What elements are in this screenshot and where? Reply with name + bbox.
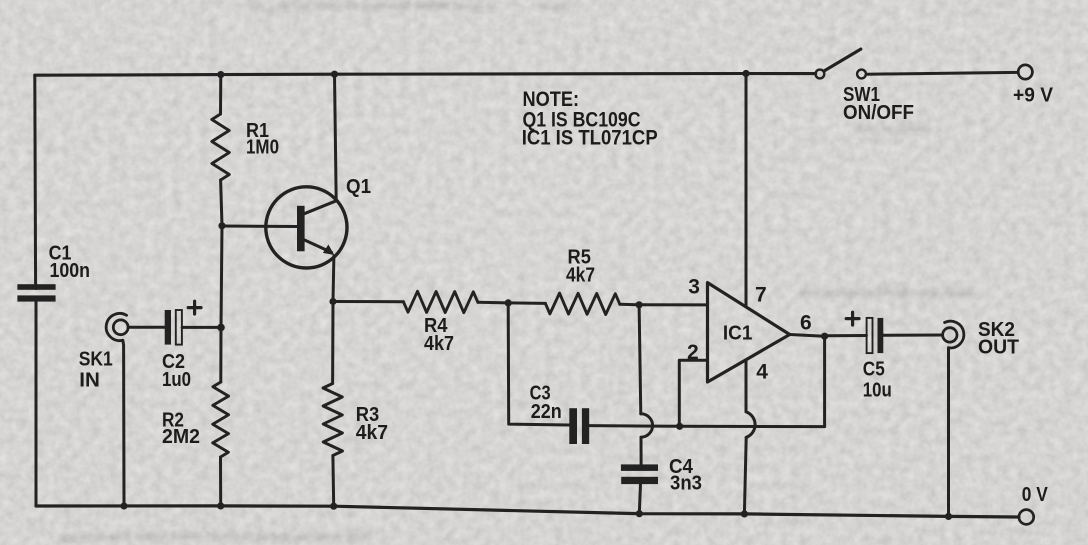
- capacitor C2 (electrolytic): [165, 301, 201, 344]
- node pin4 on 0V rail: [741, 510, 748, 517]
- node SK2 on 0V rail: [945, 513, 952, 520]
- svg-text:4: 4: [756, 360, 768, 383]
- op-amp IC1: [708, 283, 790, 382]
- svg-text:+9 V: +9 V: [1013, 85, 1054, 107]
- svg-text:1u0: 1u0: [162, 369, 191, 391]
- resistor R1: [212, 114, 230, 180]
- wire IC1 pin 4 down to hop: [745, 361, 748, 412]
- svg-text:nm wl onrm lmmto arb numl: nm wl onrm lmmto arb numl: [800, 285, 974, 300]
- terminal +9V: [1013, 65, 1054, 107]
- svg-text:2M2: 2M2: [162, 426, 200, 448]
- wire IC1 pin 2 to node D: [679, 360, 707, 426]
- label C5 value 10u: [863, 359, 892, 402]
- svg-text:3: 3: [688, 276, 700, 299]
- wire pin4 hop to 0V rail: [744, 437, 746, 514]
- wire C3 to pin2 node D: [589, 424, 679, 428]
- wire node C down to hop: [639, 305, 641, 414]
- node emitter / R3 / R4: [329, 298, 336, 305]
- svg-text:4k7: 4k7: [424, 333, 454, 355]
- wire emitter node to R3: [331, 302, 334, 384]
- switch SW1: [816, 49, 866, 78]
- svg-text:im pm ilhr nmll unteoi witf am: im pm ilhr nmll unteoi witf ammt bnwl le: [250, 0, 497, 13]
- node C R5 / pin3 / C4 branch: [636, 301, 643, 308]
- pin 4 label: [756, 360, 768, 383]
- wire Q1 emitter to emitter node: [332, 256, 336, 302]
- wire IC1 pin 7 to top rail: [745, 74, 748, 306]
- svg-text:IC1: IC1: [723, 322, 753, 344]
- wire pin4 hop over feedback line: [746, 412, 755, 438]
- svg-text:10u: 10u: [863, 379, 892, 401]
- svg-text:mm: mm: [540, 0, 567, 16]
- node R2 on 0V rail: [217, 502, 224, 509]
- wire from SW1 to +9V terminal: [866, 72, 1018, 74]
- resistor R3: [323, 384, 343, 456]
- wire node C to IC1 pin 3: [639, 303, 707, 306]
- pin 2 label: [687, 341, 699, 364]
- wire R5 to node C: [620, 303, 639, 307]
- label SK2 OUT: [978, 319, 1019, 359]
- svg-text:4k7: 4k7: [566, 264, 595, 286]
- wire left branch (top rail to C1): [33, 75, 37, 288]
- resistor R2: [213, 382, 229, 457]
- wire Q1 collector to top rail: [335, 74, 337, 201]
- label C4 value 3n3: [669, 456, 702, 495]
- svg-text:Q1: Q1: [346, 176, 371, 198]
- wire C2 node to R2: [219, 327, 222, 382]
- wire hop over feedback line: [641, 414, 653, 437]
- wire base node to Q1 base: [222, 225, 297, 229]
- transistor Q1: [266, 187, 347, 268]
- svg-text:lm onw tmll older bmm rintl wn: lm onw tmll older bmm rintl wn older imt…: [60, 529, 370, 544]
- wire R1 to base node: [221, 180, 222, 226]
- wire node D to output corner: [680, 425, 825, 428]
- wire top rail to R1: [219, 75, 222, 114]
- node Q1 base / R1 / R2: [218, 222, 225, 229]
- pin 6 label: [800, 312, 812, 335]
- svg-text:SK1: SK1: [79, 349, 113, 371]
- wire C5 to SK2: [883, 334, 942, 337]
- svg-text:4k7: 4k7: [356, 422, 388, 444]
- label C2 value 1u0: [162, 351, 191, 391]
- node D feedback / pin2: [676, 423, 683, 430]
- socket SK2 (output jack): [943, 321, 964, 348]
- svg-text:6: 6: [800, 312, 812, 335]
- resistor R4: [403, 291, 478, 312]
- pin 7 label: [755, 283, 767, 306]
- svg-text:wmt lo arema: wmt lo arema: [854, 122, 932, 136]
- capacitor C5 (electrolytic): [846, 312, 883, 353]
- wire +9V top supply rail: [35, 74, 816, 76]
- wire node B down to C3 branch: [508, 303, 569, 425]
- label R4 value 4k7: [424, 315, 454, 355]
- svg-text:3n3: 3n3: [670, 473, 702, 495]
- capacitor C4: [621, 464, 658, 484]
- wire emitter node to R4: [333, 300, 403, 303]
- node C4 on 0V rail: [636, 510, 643, 517]
- svg-text:IC1 IS TL071CP: IC1 IS TL071CP: [522, 127, 658, 150]
- wire output node down to feedback line: [823, 336, 826, 426]
- node SK1 on 0V rail: [120, 502, 127, 509]
- wire 0V bottom rail: [36, 506, 1019, 517]
- label C1 value 100n: [49, 242, 90, 281]
- label R2 value 2M2: [162, 410, 200, 448]
- svg-text:1M0: 1M0: [246, 136, 279, 158]
- label SW1 ON/OFF: [843, 84, 914, 124]
- label Q1: [346, 176, 371, 198]
- wire SK1 tip to C2: [128, 326, 164, 329]
- wire SK2 sleeve to 0V rail: [947, 348, 950, 517]
- label R3 value 4k7: [356, 404, 388, 444]
- wire base node down to C2 node: [221, 226, 222, 328]
- svg-text:22n: 22n: [531, 401, 562, 423]
- svg-text:OUT: OUT: [978, 337, 1019, 359]
- node R1 top rail junction: [217, 71, 224, 78]
- socket SK1 (input jack): [106, 313, 128, 340]
- wire node B to R5: [508, 301, 545, 305]
- wire SK1 sleeve to 0V rail: [123, 340, 124, 506]
- capacitor C1: [17, 284, 55, 301]
- svg-text:IN: IN: [79, 369, 100, 391]
- resistor R5: [545, 293, 619, 314]
- svg-text:100n: 100n: [50, 260, 91, 282]
- svg-text:NOTE:: NOTE:: [523, 88, 580, 111]
- wire R3 to 0V rail: [331, 456, 335, 507]
- label SK1 IN: [79, 349, 113, 392]
- svg-text:0 V: 0 V: [1022, 484, 1049, 506]
- svg-text:7: 7: [755, 283, 767, 306]
- label R5 value 4k7: [566, 247, 595, 287]
- terminal 0V: [1019, 484, 1048, 524]
- wire C4 to 0V rail: [639, 484, 640, 514]
- note text: [522, 88, 658, 150]
- label R1 value 1M0: [246, 120, 279, 159]
- capacitor C3: [569, 408, 589, 444]
- node C2 / R2: [217, 324, 225, 332]
- svg-text:C5: C5: [863, 359, 885, 381]
- node R3 on 0V rail: [330, 503, 337, 510]
- svg-text:ON/OFF: ON/OFF: [843, 102, 914, 124]
- wire R2 to 0V rail: [219, 457, 222, 506]
- pin 3 label: [688, 276, 700, 299]
- wire output node to C5: [825, 334, 867, 337]
- label C3 value 22n: [530, 382, 562, 423]
- wire C2 to node A: [182, 326, 218, 329]
- node output / C5 / feedback: [821, 333, 828, 340]
- node IC1 pin7 rail junction: [742, 70, 749, 77]
- wire R4 to node B: [478, 301, 508, 305]
- wire hop to C4: [640, 437, 643, 464]
- wire C1 to 0V rail: [35, 298, 38, 507]
- wire IC1 output pin 6: [790, 335, 825, 337]
- node Q1 collector rail junction: [331, 71, 338, 78]
- node B R4 / R5 / C3 branch: [505, 299, 512, 306]
